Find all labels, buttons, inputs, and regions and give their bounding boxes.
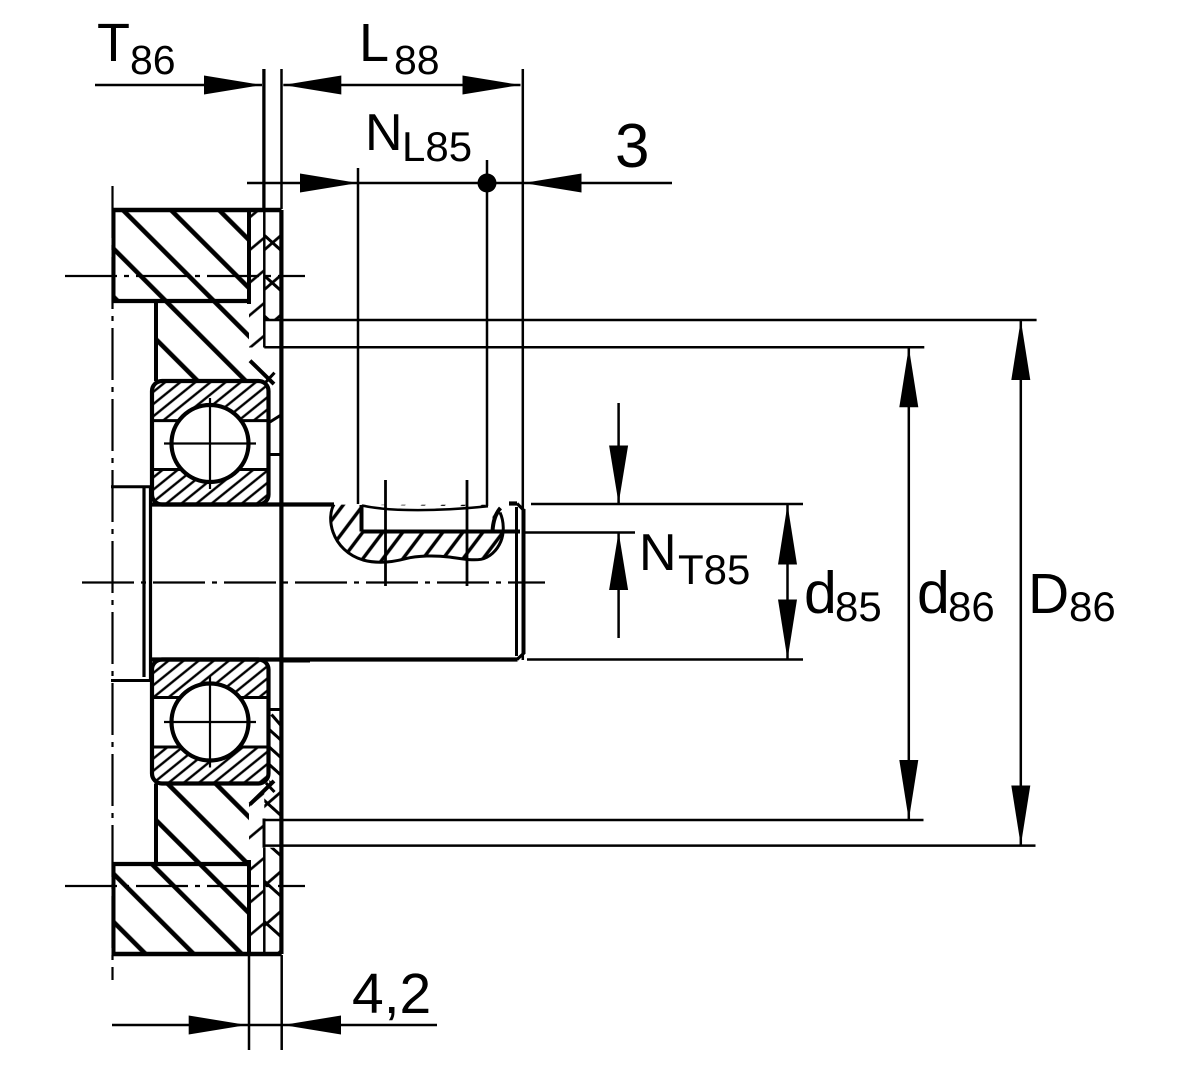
housing seat hatch right of bottom bearing: [269, 726, 280, 784]
NT85 lower dimension line: [617, 532, 620, 638]
keyway bottom extension line: [524, 531, 635, 534]
housing neck left edge top: [154, 301, 158, 381]
bore edge stub right of wall: [284, 660, 311, 663]
svg-text:T: T: [97, 13, 130, 73]
collar left edge: [142, 487, 145, 677]
shaft top edge left of keyway: [151, 502, 334, 506]
seat bevel bottom: [250, 781, 274, 804]
seat groove tick bottom: [270, 708, 281, 711]
main shaft centre line: [82, 581, 545, 583]
top bearing ring hatch bands: [154, 383, 267, 420]
keyway slot right end: [493, 508, 501, 532]
NL85 extension line keyway right: [486, 160, 489, 506]
bottom ball centre mark vertical: [209, 677, 211, 768]
wall back face extension line: [280, 69, 283, 209]
wall face line bottom: [263, 848, 266, 954]
svg-text:4,2: 4,2: [352, 962, 431, 1026]
housing flange block top hatch: [114, 210, 250, 301]
bottom ball centre mark horizontal: [164, 721, 256, 723]
L88 dimension line: [283, 84, 520, 87]
L88 / 3 extension line at shaft end: [522, 69, 525, 660]
wall column crosshatch upper-bottom: [264, 784, 281, 819]
bottom recess left edge: [263, 819, 266, 848]
housing top edge: [113, 208, 282, 213]
d86 dimension line: [908, 347, 911, 820]
collar top line: [111, 485, 152, 488]
keyway slot left wall: [360, 505, 364, 532]
d86 bottom extension line: [264, 819, 924, 822]
shaft top edge right of keyway: [509, 501, 517, 505]
svg-text:86: 86: [1069, 583, 1116, 630]
svg-text:N: N: [639, 524, 677, 582]
keyway end arc centre mark right: [466, 480, 469, 586]
svg-text:N: N: [365, 104, 403, 162]
svg-text:L85: L85: [402, 123, 472, 170]
shaft end face: [522, 509, 526, 654]
svg-text:86: 86: [948, 583, 995, 630]
housing neck left edge bottom: [154, 784, 158, 865]
svg-text:88: 88: [394, 37, 440, 83]
housing neck bottom hatch: [156, 784, 249, 865]
svg-text:86: 86: [130, 37, 176, 83]
svg-text:T85: T85: [678, 546, 750, 593]
svg-text:L: L: [359, 13, 389, 73]
seat corner bevel top: [266, 373, 275, 382]
top flange left edge: [112, 210, 116, 301]
keyway end arc centre mark left: [384, 480, 387, 586]
top flange right edge: [247, 210, 251, 304]
bottom flange topside: [113, 862, 248, 866]
keyway far-side surface line: [362, 506, 488, 511]
vertical chain line mounting face: [111, 186, 113, 980]
bottom flange left edge: [112, 864, 116, 954]
T86 dimension line: [95, 84, 262, 87]
shaft end chamfer bottom: [517, 653, 524, 660]
bottom bearing outline box: [152, 660, 269, 784]
seat groove tick top: [270, 453, 281, 456]
svg-text:3: 3: [615, 112, 649, 181]
bottom bearing inner ring OD line: [152, 696, 269, 699]
4,2 extension line right: [280, 955, 283, 1050]
keyway slot bottom: [362, 530, 521, 534]
d86 top extension line: [264, 346, 924, 349]
bottom bolt hole centre line: [65, 885, 305, 887]
top bearing outline box: [152, 381, 269, 505]
keyway broken-out section hatch: [331, 505, 504, 563]
top ball centre mark horizontal: [164, 442, 256, 444]
shaft end chamfer top: [517, 504, 524, 511]
housing neck top hatch: [156, 301, 249, 381]
seat groove diagonal top: [270, 415, 281, 422]
seat corner bevel bottom: [266, 783, 275, 792]
spigot column hatch top: [249, 210, 264, 348]
svg-text:d: d: [804, 560, 837, 626]
top flange underside: [113, 299, 249, 303]
bottom bearing ball: [172, 684, 249, 761]
top ball centre mark vertical: [209, 398, 211, 489]
svg-text:D: D: [1028, 562, 1069, 626]
D86 bottom extension line: [264, 844, 1036, 847]
4,2 extension line left: [248, 955, 251, 1050]
wall column crosshatch top: [264, 210, 281, 319]
D86 top extension line: [264, 319, 1036, 322]
top bearing outer ring bore line: [152, 419, 269, 422]
housing flange block bottom hatch: [114, 864, 250, 954]
shaft bottom edge: [151, 657, 518, 661]
D86 dimension line: [1020, 320, 1023, 846]
seat bevel top: [250, 361, 274, 384]
NT85 upper dimension line: [617, 403, 620, 504]
svg-text:85: 85: [835, 583, 882, 630]
d85 dimension line: [786, 505, 789, 660]
4,2 dimension line: [112, 1024, 437, 1027]
shaft bottom extension line: [527, 658, 803, 661]
shaft end chamfer edge line: [515, 507, 518, 656]
collar bottom line: [111, 679, 152, 682]
wall right edge: [279, 210, 283, 954]
NL85 extension line keyway left: [357, 168, 360, 504]
svg-text:d: d: [917, 560, 950, 626]
wall column crosshatch lower-bottom: [264, 848, 281, 954]
housing bottom edge: [112, 952, 282, 957]
top bearing inner ring OD line: [152, 468, 269, 471]
keyway break line outline: [331, 505, 504, 563]
top bearing ball: [172, 405, 249, 482]
NL85 and 3 dimension line: [247, 182, 672, 185]
bottom bearing outer ring bore line: [152, 746, 269, 749]
seat groove diagonal bottom: [272, 715, 282, 726]
NL85 dimension dot terminator: [478, 174, 497, 193]
collar right edge: [149, 487, 152, 681]
T86 extension + wall face line: [263, 69, 266, 348]
bottom bearing ring hatch bands: [154, 661, 267, 697]
shaft surface extension line: [531, 503, 803, 506]
bottom flange right edge: [247, 860, 251, 954]
top bolt hole centre line: [65, 275, 305, 277]
spigot column hatch bottom: [249, 784, 264, 955]
T86 extension line right -- see wall face: [262, 69, 265, 209]
